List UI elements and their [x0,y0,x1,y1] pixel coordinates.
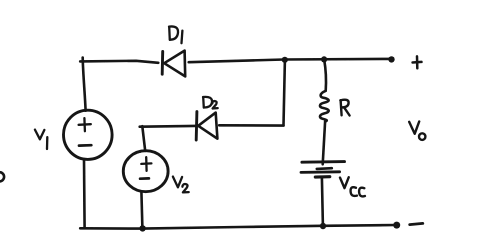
label V1 [35,130,47,149]
+ output terminal dot [388,56,394,62]
battery Vcc plate long lower [301,170,340,173]
diode D1 triangle [164,51,185,77]
label D2 [203,97,218,109]
battery Vcc plate long top [302,160,345,163]
wire: battery bottom lead [322,178,323,226]
wire: D1 to node A and on to + terminal [189,59,391,62]
stray partial glyph at left edge [0,172,4,181]
- output sign [410,223,423,224]
diode D2 triangle [198,113,217,139]
wire: bottom rail [80,225,396,229]
wire: V2 bottom lead [141,191,142,228]
V1 minus sign [79,144,91,147]
battery Vcc plate short [317,167,332,170]
label R [340,100,349,116]
V2 plus sign [141,157,151,171]
wire: D2 cathode side horizontal [219,124,283,127]
junction dot battery/bottom rail [320,223,326,229]
label Vo [409,122,425,140]
label Vcc [340,177,365,196]
node A junction dot [282,57,288,63]
V2 minus sign [140,177,149,180]
source V1 overlap stroke [68,111,83,122]
V1 plus sign [79,118,91,131]
label V2 [173,177,189,193]
wire: resistor to battery top [323,122,325,165]
wire: vertical from node A down to D2 output [284,60,285,125]
+ output sign [413,56,422,68]
source V2 circle [123,151,168,192]
junction dot V2/bottom rail [139,225,145,231]
wire: D2 anode to left corner [140,125,195,128]
source V1 circle [64,110,113,159]
junction dot R top [321,56,327,62]
wire: from top rail down to resistor [324,60,326,91]
wire: top horizontal from corner to D1 anode bar [80,61,158,63]
diode D2 cathode bar [195,112,199,140]
battery Vcc plate short bottom [315,175,330,179]
- output terminal dot [393,222,400,229]
wire: V1 bottom lead [83,159,86,228]
diode D1 cathode bar [161,52,164,75]
wire: riser from corner down to V2 top [142,126,145,151]
wire: top-left corner vertical riser from V1 top [83,58,86,111]
resistor R coil [320,91,329,122]
label D1 [169,26,182,43]
source V2 overlap stroke [128,152,142,161]
